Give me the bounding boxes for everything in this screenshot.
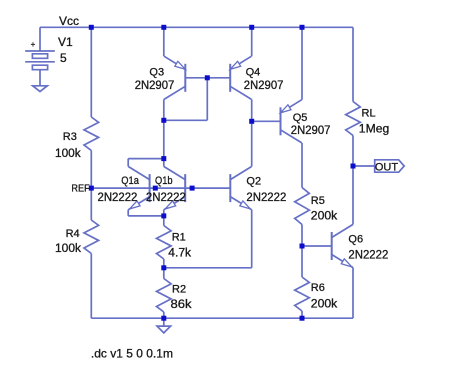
svg-text:200k: 200k bbox=[311, 211, 338, 223]
svg-text:RL: RL bbox=[362, 108, 376, 120]
svg-text:2N2222: 2N2222 bbox=[246, 192, 286, 204]
svg-text:5: 5 bbox=[60, 51, 67, 65]
svg-text:Q5: Q5 bbox=[293, 112, 308, 124]
svg-text:R5: R5 bbox=[311, 195, 325, 207]
svg-text:2N2222: 2N2222 bbox=[146, 192, 186, 204]
svg-text:2N2222: 2N2222 bbox=[348, 250, 388, 262]
svg-text:100k: 100k bbox=[55, 148, 81, 160]
svg-text:OUT: OUT bbox=[375, 161, 399, 173]
svg-text:R2: R2 bbox=[172, 284, 186, 296]
svg-text:REF: REF bbox=[71, 182, 89, 194]
svg-text:2N2907: 2N2907 bbox=[291, 125, 331, 137]
svg-text:Q2: Q2 bbox=[246, 176, 261, 188]
svg-text:2N2222: 2N2222 bbox=[98, 192, 138, 204]
svg-text:200k: 200k bbox=[311, 298, 338, 310]
svg-text:1Meg: 1Meg bbox=[359, 124, 390, 136]
svg-text:R6: R6 bbox=[311, 282, 325, 294]
svg-text:4.7k: 4.7k bbox=[168, 247, 191, 259]
svg-text:Q6: Q6 bbox=[348, 233, 363, 245]
svg-text:Q3: Q3 bbox=[149, 67, 164, 79]
svg-text:100k: 100k bbox=[55, 243, 81, 255]
svg-text:Q1a: Q1a bbox=[121, 175, 139, 187]
svg-text:R4: R4 bbox=[66, 228, 80, 240]
svg-text:86k: 86k bbox=[171, 299, 192, 311]
svg-text:2N2907: 2N2907 bbox=[135, 80, 175, 92]
svg-text:2N2907: 2N2907 bbox=[244, 80, 284, 92]
svg-text:Vcc: Vcc bbox=[59, 14, 79, 28]
svg-text:R1: R1 bbox=[172, 231, 186, 243]
svg-text:Q1b: Q1b bbox=[155, 175, 173, 187]
svg-text:V1: V1 bbox=[58, 35, 73, 49]
svg-text:.dc v1 5 0 0.1m: .dc v1 5 0 0.1m bbox=[91, 347, 173, 361]
svg-text:R3: R3 bbox=[63, 131, 77, 143]
svg-text:Q4: Q4 bbox=[246, 67, 261, 79]
svg-text:+: + bbox=[31, 40, 36, 49]
